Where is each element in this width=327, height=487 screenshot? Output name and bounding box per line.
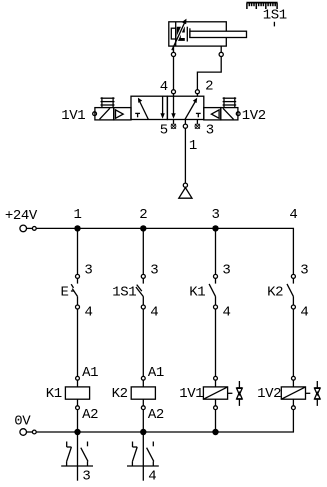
+24V rail [36, 228, 293, 274]
junction dots 0V [74, 429, 218, 435]
svg-text:4: 4 [160, 79, 168, 95]
left square: blocked port T [135, 113, 140, 117]
rung 4: relay contact K2 (make), pins 3-4 [287, 274, 295, 309]
svg-text:2: 2 [139, 207, 147, 223]
svg-text:A2: A2 [148, 407, 164, 423]
cylinder piston plate [187, 27, 190, 42]
svg-text:4: 4 [150, 305, 158, 321]
svg-text:2: 2 [205, 79, 213, 95]
svg-text:3: 3 [222, 263, 230, 279]
svg-text:4: 4 [223, 305, 231, 321]
svg-text:3: 3 [150, 263, 158, 279]
rung 3: wire from +24V rail [215, 228, 217, 274]
pushbutton E (make contact), pins 3-4 [71, 274, 79, 309]
manual override 1V2 [223, 97, 237, 107]
svg-text:1V2: 1V2 [242, 108, 266, 124]
wire coil K2 to 0V [142, 410, 144, 432]
limit switch contact 1S1 (make), pins 3-4 [136, 274, 145, 309]
distance ruler 1S1 [246, 3, 277, 9]
cylinder port left [171, 46, 175, 56]
wire contact to coil 1V2 [292, 309, 294, 376]
svg-text:4: 4 [300, 305, 308, 321]
compressed air supply [179, 183, 192, 198]
wire contact to coil K2 [142, 309, 144, 376]
wire valve port2 to cylinder right port [197, 57, 221, 90]
svg-text:1V1: 1V1 [179, 386, 203, 402]
contact mirror of K1 [61, 435, 93, 481]
svg-text:A2: A2 [82, 407, 98, 423]
cylinder piston (black) [177, 27, 185, 41]
cylinder port right [219, 46, 223, 56]
wire port1 to supply [184, 128, 186, 183]
valve port 3 blanking plug [195, 120, 200, 129]
valve 1V body left square [131, 96, 167, 119]
right square: flow arrow 4-5 [171, 96, 175, 119]
solenoid pilot 1V2 (right) [221, 108, 240, 120]
solenoid link mark 1V2 [306, 381, 321, 406]
valve port 4 connection [172, 90, 176, 97]
right square: flow arrow 1-2 [185, 98, 197, 120]
wire coil 1V1 to 0V [215, 410, 217, 432]
svg-text:A1: A1 [82, 365, 98, 381]
svg-text:3: 3 [84, 263, 92, 279]
svg-text:K2: K2 [112, 386, 128, 402]
svg-text:5: 5 [160, 123, 168, 139]
valve body right square [167, 96, 203, 119]
svg-text:K2: K2 [267, 284, 283, 300]
relay contact K1 (make), pins 3-4 [209, 274, 217, 309]
svg-text:4: 4 [85, 305, 93, 321]
wire valve port4 to cylinder left port [173, 57, 175, 90]
pilot triangle right [204, 108, 221, 120]
svg-text:E: E [61, 285, 69, 301]
valve solenoid coil 1V1 [203, 376, 227, 409]
svg-text:1S1: 1S1 [112, 285, 136, 301]
cylinder cushion rect [171, 28, 175, 39]
svg-text:1: 1 [189, 138, 197, 154]
solenoid pilot 1V1 (left) [93, 108, 114, 120]
manual override 1V1 [101, 97, 115, 107]
svg-text:0V: 0V [14, 414, 31, 430]
label E [61, 285, 75, 301]
svg-text:+24V: +24V [5, 208, 38, 224]
svg-text:A1: A1 [148, 365, 164, 381]
svg-text:3: 3 [82, 469, 90, 485]
valve port 2 connection [195, 90, 199, 97]
svg-text:3: 3 [206, 123, 214, 139]
left square: flow arrow 2-3 [160, 96, 164, 119]
svg-text:4: 4 [289, 207, 297, 223]
svg-text:3: 3 [212, 207, 220, 223]
pilot triangle left [114, 108, 131, 120]
+24V terminal [5, 208, 38, 232]
ruler connection mark [273, 22, 275, 27]
valve port 1 connection [183, 120, 187, 129]
wire contact to coil 1V1 [215, 309, 217, 376]
left square: flow arrow 1-4 [138, 98, 149, 120]
right square: blocked port T [196, 113, 201, 117]
relay coil K2 [131, 376, 155, 409]
svg-text:1S1: 1S1 [263, 8, 287, 24]
wire coil K1 to 0V [77, 410, 79, 432]
0V rail [36, 410, 293, 432]
0V terminal [14, 414, 36, 436]
cylinder rod [190, 31, 247, 37]
svg-text:1V1: 1V1 [61, 108, 85, 124]
solenoid link mark 1V1 [228, 381, 243, 406]
svg-text:1: 1 [74, 207, 82, 223]
valve solenoid coil 1V2 [281, 376, 305, 409]
svg-text:K1: K1 [46, 386, 62, 402]
junction dots +24V [74, 225, 218, 231]
svg-text:3: 3 [300, 263, 308, 279]
relay coil K1 [65, 376, 89, 409]
svg-text:4: 4 [148, 469, 156, 485]
cushioning adjust arrow [172, 19, 187, 51]
valve port 5 blanking plug [171, 120, 176, 129]
wire contact to coil K1 [77, 309, 79, 376]
rung 1: wire from +24V rail [77, 228, 79, 274]
rung 2: wire from +24V rail [142, 228, 144, 274]
cylinder 1A body [169, 22, 227, 46]
svg-text:K1: K1 [189, 284, 205, 300]
svg-text:1V2: 1V2 [257, 386, 281, 402]
contact mirror of K2 [127, 435, 159, 481]
